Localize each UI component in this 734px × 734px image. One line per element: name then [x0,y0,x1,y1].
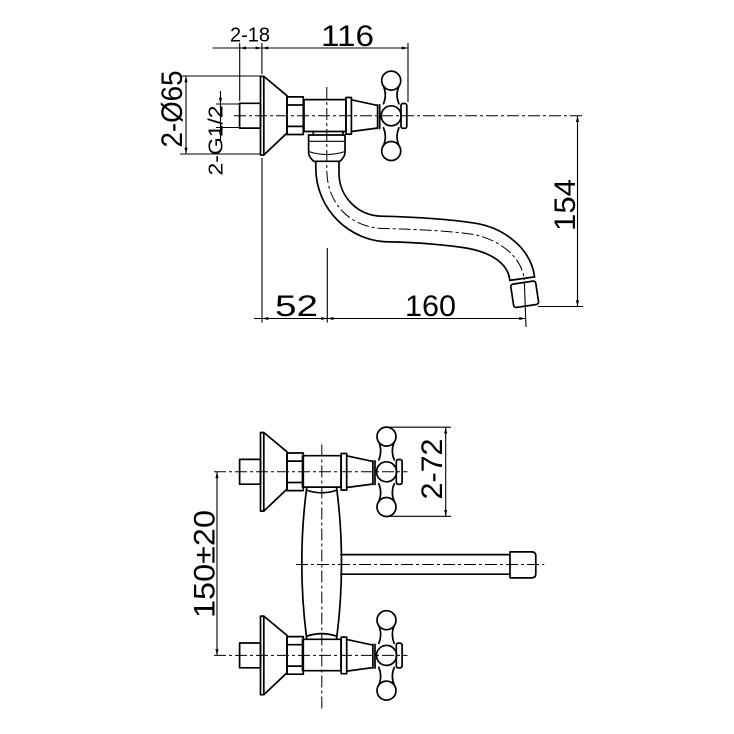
svg-text:160: 160 [405,290,456,323]
svg-text:2-18: 2-18 [230,25,270,47]
svg-text:154: 154 [549,179,582,231]
svg-text:116: 116 [321,20,374,53]
svg-text:52: 52 [275,290,318,323]
svg-text:2-G1/2: 2-G1/2 [205,106,227,176]
svg-text:2-Ø65: 2-Ø65 [156,71,189,148]
svg-text:2-72: 2-72 [416,439,449,500]
svg-text:150±20: 150±20 [189,510,222,618]
